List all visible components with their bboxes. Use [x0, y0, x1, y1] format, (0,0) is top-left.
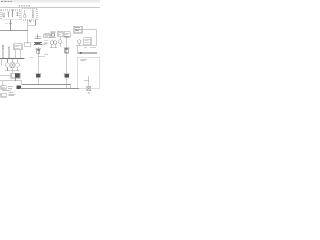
wire from G to lower run	[15, 78, 17, 81]
junction dot on dark feeder	[80, 52, 81, 54]
right riser	[96, 30, 98, 46]
K device box	[87, 86, 91, 90]
transformer G3 core (dark)	[64, 74, 68, 78]
label box LB4	[84, 38, 91, 45]
legend row1 text	[8, 87, 13, 88]
small riser R-left2	[8, 47, 10, 59]
node label n1	[6, 23, 8, 25]
branch drop 2	[12, 59, 14, 63]
disconnect S2	[32, 10, 34, 18]
fuse block FB1 cross	[11, 63, 14, 68]
enclosure box A (top-left dashed)	[1, 10, 20, 20]
fuse F2 tick	[35, 48, 41, 50]
drop wire to legend	[2, 81, 4, 86]
dark feeder line	[78, 52, 97, 54]
wire horizontal main left	[0, 30, 28, 32]
transformer T2 primary tick	[35, 35, 41, 37]
transformer box G2 top bar	[35, 72, 41, 74]
right cluster circle CT1	[78, 40, 81, 43]
CT1 stub	[78, 43, 80, 45]
motor M5	[54, 41, 57, 44]
legend dark box N2	[17, 85, 21, 89]
K junction tick	[84, 80, 89, 82]
switchgear box T (top right)	[74, 26, 82, 33]
label LB4 text	[84, 39, 90, 43]
bus MDP (left)	[0, 58, 24, 60]
collector wire	[5, 67, 19, 71]
transformer box G	[11, 73, 20, 78]
legend box N1	[1, 86, 6, 89]
background sheet	[0, 0, 100, 100]
menu bar	[0, 0, 100, 3]
feeder riser right-center	[66, 37, 68, 89]
F3 lower tick	[64, 52, 69, 54]
motor M2	[5, 63, 9, 67]
transformer box G3 top bar	[63, 72, 69, 74]
right collector wire	[76, 45, 96, 47]
wire L-run from box B bottom	[28, 20, 36, 25]
fuse block FB1	[11, 63, 14, 68]
note dash	[30, 57, 33, 59]
breaker CB1	[3, 13, 5, 18]
legend box N3	[1, 93, 6, 97]
label box LB3	[64, 32, 70, 37]
breaker circle U1	[52, 33, 55, 36]
K device cross	[87, 86, 91, 90]
legend N3 text	[8, 94, 15, 96]
legend text row	[2, 91, 13, 92]
motor M3	[16, 63, 20, 67]
unit substation left verticals	[50, 32, 55, 39]
switch S1	[8, 12, 10, 18]
toolbar icons	[19, 5, 31, 7]
wire stub from arrow A to main	[10, 26, 12, 31]
label box LB2	[58, 31, 63, 36]
fuse F2 body	[37, 50, 40, 53]
main bus 2	[20, 88, 79, 90]
main bus 1	[22, 84, 71, 86]
tap label line	[38, 55, 48, 57]
breaker CB2	[24, 10, 26, 15]
label LB3 text	[65, 33, 70, 36]
indicator lamp L1	[24, 15, 27, 18]
branch drop 3	[17, 59, 19, 63]
drop to dark feeder line	[77, 46, 79, 53]
fuse F1	[12, 10, 14, 18]
fuse F3 body	[65, 49, 68, 53]
lower-left run	[0, 81, 22, 85]
feeder wire from box B	[27, 20, 29, 44]
M6 stubs	[59, 36, 61, 47]
feeder riser center	[37, 47, 39, 85]
box T text (dark)	[75, 28, 81, 31]
junction box J1	[25, 42, 31, 47]
arrow on wire A	[9, 23, 11, 25]
wire into G	[0, 75, 11, 77]
motor M4	[50, 41, 53, 44]
drop to transformer G	[12, 71, 14, 74]
K drop wire	[88, 76, 90, 88]
wire from T to right riser	[82, 29, 97, 31]
fuse F3 tick	[64, 47, 70, 49]
menu text marks	[1, 0, 12, 3]
toolbar bottom border	[0, 6, 100, 9]
panel P1 drops	[16, 50, 21, 59]
bus jog	[70, 85, 72, 89]
transformer G2 core (dark)	[36, 74, 40, 78]
wire tap y44.5	[34, 44, 47, 46]
K title text	[80, 59, 87, 61]
enclosure box B (top dashed)	[22, 8, 37, 20]
transformer G core (dark)	[15, 74, 19, 78]
right label marks	[85, 47, 96, 49]
equipment room outline K	[78, 57, 100, 88]
value label under LB1	[44, 41, 49, 44]
wire from box A down	[10, 20, 12, 26]
K device ground	[87, 92, 90, 93]
transformer T2	[34, 34, 42, 45]
arrow on feeder B	[29, 21, 31, 23]
motor M6	[58, 40, 62, 44]
small riser R-left1	[2, 45, 4, 58]
panel P1 label	[15, 45, 21, 48]
label text lines LB1	[44, 35, 49, 36]
stubs under motors	[50, 44, 57, 47]
far-left stub below bus	[0, 59, 2, 67]
panel box P1	[14, 44, 22, 50]
meter M1	[17, 12, 19, 16]
legend N1 tick	[2, 86, 5, 88]
branch drop 1	[7, 59, 9, 63]
label box LB1	[44, 34, 50, 38]
label LB2 text	[59, 33, 62, 35]
